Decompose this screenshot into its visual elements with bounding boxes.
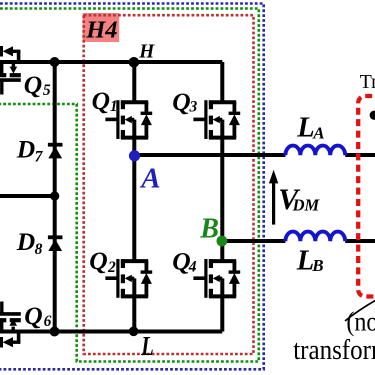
label D8 <box>16 227 43 258</box>
svg-text:A: A <box>139 162 160 194</box>
svg-text:A: A <box>312 123 324 142</box>
wire Q3 drain from top rail <box>220 62 224 102</box>
svg-text:DM: DM <box>292 196 321 215</box>
svg-text:8: 8 <box>35 241 43 258</box>
red dashed boundary H4 bridge <box>84 15 254 354</box>
svg-text:transformer): transformer) <box>293 335 375 366</box>
label Q1 <box>92 86 118 115</box>
svg-text:D: D <box>16 134 35 163</box>
svg-text:H: H <box>138 42 155 63</box>
inductor LB coil <box>285 232 345 242</box>
svg-text:Q: Q <box>24 301 42 330</box>
H4 label box <box>83 13 120 42</box>
node L dot <box>129 327 139 337</box>
label Q2 <box>89 246 116 276</box>
wire left rail (Q5-D7-D8-Q6 branch) <box>53 62 57 332</box>
transistor Q1 (MOSFET, top-left of bridge) <box>105 100 152 139</box>
junction dot top-left rail <box>50 57 60 67</box>
wire Q2 source to L rail <box>132 296 136 331</box>
svg-text:Q: Q <box>172 87 190 116</box>
wire Q4 source to L rail <box>220 296 224 331</box>
svg-text:Q: Q <box>92 86 110 115</box>
svg-text:L: L <box>296 113 314 144</box>
junction dot bottom-left rail <box>50 327 60 337</box>
label LB <box>296 246 324 277</box>
transformer winding dot <box>370 111 375 120</box>
svg-text:D: D <box>16 227 35 256</box>
diode D8 <box>48 237 63 251</box>
diode D7 <box>48 145 63 159</box>
wire Q3 source through node B to Q4 drain <box>220 138 224 262</box>
transistor Q6 (rotated MOSFET, bottom-left, clipped) <box>0 302 21 348</box>
wire Q1 drain from H <box>132 62 136 102</box>
svg-text:1: 1 <box>110 98 118 115</box>
label LA <box>296 113 324 144</box>
node H dot <box>129 57 140 68</box>
green dashed boundary <box>0 9 259 362</box>
svg-text:6: 6 <box>44 313 52 330</box>
label Q4 <box>172 247 197 276</box>
svg-text:2: 2 <box>107 259 116 276</box>
node A dot (blue) <box>129 150 140 161</box>
transistor Q5 (rotated MOSFET, top-left, clipped) <box>0 46 21 95</box>
label Q5 <box>24 70 51 99</box>
svg-text:3: 3 <box>189 99 198 116</box>
label V_DM <box>278 183 320 216</box>
svg-text:B: B <box>311 256 323 275</box>
transistor Q3 (MOSFET, top-right of bridge) <box>193 100 240 139</box>
inductor LA coil <box>285 146 345 156</box>
junction dot D7/D8 midpoint <box>50 191 59 200</box>
wire top rail H <box>0 60 222 64</box>
red dashed transformer box (clipped at right) <box>358 96 375 297</box>
node B dot (green) <box>217 236 228 247</box>
svg-text:L: L <box>141 330 154 361</box>
label Q6 <box>24 301 51 330</box>
svg-text:Q: Q <box>89 246 107 275</box>
svg-text:7: 7 <box>35 149 44 166</box>
blue dashed boundary (outer converter) <box>0 4 264 370</box>
svg-text:B: B <box>199 213 219 244</box>
wire node A to inductor LA <box>134 153 285 157</box>
wire Q1 source to node A to Q2 drain <box>132 138 136 262</box>
wire LA to right edge <box>345 153 375 157</box>
label Q3 <box>172 87 197 116</box>
svg-text:5: 5 <box>43 82 51 99</box>
svg-text:4: 4 <box>188 259 197 276</box>
wire node B to inductor LB <box>222 239 285 243</box>
svg-text:Transformer: Transformer <box>360 71 375 93</box>
transistor Q4 (MOSFET, bottom-right of bridge) <box>193 259 240 298</box>
arrow V_DM (pointing up) <box>269 170 278 225</box>
svg-text:Q: Q <box>24 70 42 99</box>
label D7 <box>16 134 44 165</box>
wire left stub at D7/D8 midpoint <box>0 194 55 198</box>
transistor Q2 (MOSFET, bottom-left of bridge) <box>105 259 152 298</box>
wire bottom rail L <box>0 330 222 334</box>
svg-text:H4: H4 <box>85 16 117 43</box>
annotation curve to transformer <box>345 300 375 321</box>
wire LB to right edge <box>345 239 375 243</box>
svg-text:(non-: (non- <box>346 307 375 337</box>
